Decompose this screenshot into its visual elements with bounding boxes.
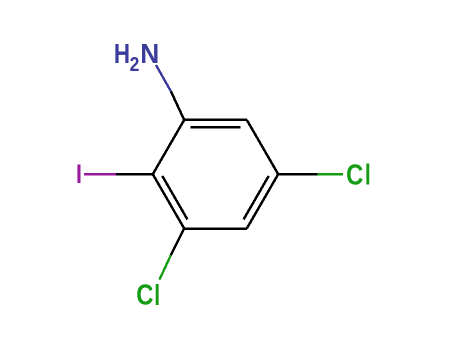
wire ring bond C6=C1 inner — [190, 126, 240, 129]
wire bond C3-Cl lower half green — [159, 255, 170, 280]
wire bond C2-I inner half black — [116, 173, 153, 176]
svg-text:l: l — [365, 159, 371, 191]
wire ring bond C6=C1 outer — [184, 119, 247, 122]
wire ring bond C2=C3 outer — [153, 174, 184, 228]
svg-text:C: C — [136, 278, 153, 311]
svg-text:l: l — [154, 280, 160, 312]
wire ring bond C2=C3 inner — [162, 176, 187, 220]
wire bond C1-N lower half black — [171, 92, 184, 120]
wire ring bond C5-C6 — [247, 120, 278, 174]
chlorine label Cl bottom — [136, 278, 160, 311]
wire bond C3-Cl upper half black — [171, 229, 184, 256]
svg-text:C: C — [346, 158, 363, 191]
chlorine label Cl right — [346, 158, 371, 191]
svg-text:2: 2 — [130, 53, 140, 75]
wire ring bond C1-C2 — [153, 120, 184, 174]
wire ring bond C3-C4 — [184, 227, 247, 230]
wire bond C5-Cl inner half black — [278, 173, 318, 176]
svg-text:N: N — [140, 37, 159, 69]
wire bond C5-Cl outer half green — [318, 173, 343, 175]
wire bond C2-I outer half purple — [84, 173, 116, 175]
svg-text:I: I — [76, 160, 82, 190]
amine label H2N — [114, 37, 159, 75]
svg-text:H: H — [114, 39, 130, 70]
wire ring bond C4=C5 inner — [244, 176, 269, 220]
wire ring bond C4=C5 outer — [247, 174, 278, 228]
wire bond C1-N upper half blue — [156, 65, 171, 92]
